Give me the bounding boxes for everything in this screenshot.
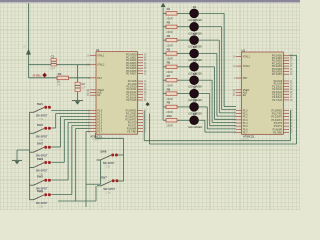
resistor R9 [163,106,166,108]
resistor R6 [163,66,166,68]
resistor R2 reset [57,76,69,80]
svg-text:D4: D4 [193,45,197,49]
wire RST horizontal [29,77,91,79]
svg-text:SW2: SW2 [37,123,44,127]
svg-text:D8: D8 [193,99,197,103]
svg-text:C2: C2 [81,82,85,86]
svg-text:1.0k: 1.0k [106,166,111,169]
wire LED D7 to U2 pin [199,93,210,95]
svg-text:D5: D5 [193,59,197,63]
svg-text:R3: R3 [167,21,171,25]
svg-text:P0.7/AD7: P0.7/AD7 [272,73,283,76]
microcontroller U1 AT89C51 [96,52,138,135]
resistor R8 [163,93,166,95]
svg-text:SW-SPDT: SW-SPDT [36,201,48,205]
svg-text:LED-GREEN: LED-GREEN [188,126,202,129]
wire LED power rail vertical [162,7,164,120]
wire LED D5 to U2 pin [199,66,215,68]
svg-text:<TEXT>: <TEXT> [92,138,102,141]
svg-text:1.0k: 1.0k [39,118,44,121]
svg-text:D3: D3 [193,32,197,36]
svg-text:R10: R10 [167,114,173,118]
svg-text:R6: R6 [167,61,171,65]
svg-text:30pF: 30pF [49,67,55,71]
svg-text:SW-SPDT: SW-SPDT [103,187,115,191]
svg-text:SW-SPDT: SW-SPDT [36,135,48,139]
svg-text:SW7: SW7 [101,175,108,179]
svg-text:RST: RST [243,77,248,80]
svg-text:P1.7: P1.7 [97,131,103,134]
svg-text:SW3: SW3 [37,142,44,146]
svg-text:R8: R8 [167,87,171,91]
wire SW3 to P1.2 [51,146,60,148]
wire P1.6 to SW7 loop [76,128,90,130]
svg-text:R4: R4 [167,34,171,38]
wire LED D3 to U2 pin [199,39,220,41]
wire rail TXD U1 P3.1 to U2 [149,114,151,145]
ground symbol left [12,159,22,161]
wire LED D8 to U2 pin [199,106,208,108]
svg-text:XTAL2: XTAL2 [97,64,105,67]
wire ground branch [17,149,30,151]
wire vertical VCC rail left [28,3,30,78]
wire LED D9 to U2 pin [199,119,205,121]
svg-text:SW5: SW5 [37,175,44,179]
svg-text:SW1: SW1 [37,102,44,106]
svg-text:SW4: SW4 [37,157,44,161]
wire SW1 to P1.0 [51,110,90,112]
wire LED D1 to U2 pin [199,12,224,14]
wire switch common ground rail [29,112,31,199]
LED D5 [190,62,199,71]
svg-text:XTAL1: XTAL1 [97,54,105,57]
svg-text:U2: U2 [241,48,245,52]
ground symbol under C2 [72,100,83,102]
LED D2 [190,22,199,31]
wire LED D6 to U2 pin [199,79,212,81]
svg-text:R9: R9 [167,101,171,105]
svg-text:SW-SPDT: SW-SPDT [36,114,48,118]
svg-text:EA: EA [243,94,247,97]
wire resistor to LED D8 [177,106,190,108]
svg-text:RST: RST [97,77,102,80]
svg-text:1.0k: 1.0k [106,192,111,195]
svg-text:C1: C1 [51,54,55,58]
wire resistor to LED D3 [177,39,190,41]
svg-text:D7: D7 [193,85,197,89]
wire SW2 to P1.1 [51,127,55,129]
svg-text:EA: EA [97,94,101,97]
LED D6 [190,76,199,85]
svg-text:P2.7/A15: P2.7/A15 [272,99,283,102]
svg-text:P0.7/AD7: P0.7/AD7 [126,73,137,76]
svg-text:XTAL1: XTAL1 [243,56,251,59]
svg-text:200R: 200R [166,123,172,127]
resistor R5 [163,52,166,54]
wire resistor to LED D4 [177,52,190,54]
resistor R4 [163,39,166,41]
wire resistor to LED D2 [177,26,190,28]
svg-text:P2.7/A15: P2.7/A15 [126,99,137,102]
wire SW6 to P1.5 [51,194,72,196]
wire P1.7 to SW7 common [86,131,90,133]
LED D1 [190,9,199,18]
power terminal VCC arrow [26,49,31,55]
LED D3 [190,36,199,45]
svg-text:R1: R1 [167,7,171,11]
power terminal arrow LED rail [161,3,166,7]
resistor R10 [163,119,166,121]
svg-text:R5: R5 [167,47,171,51]
wire resistor to LED D7 [177,93,190,95]
svg-text:R7: R7 [167,74,171,78]
LED D7 [190,89,199,98]
wire rail RXD U1 P3.0 to U2 [143,111,145,141]
wire resistor to LED D5 [177,66,190,68]
capacitor C2 [75,82,80,91]
wire SW4 to P1.3 [51,161,64,163]
svg-text:ATMEL: ATMEL [33,73,42,77]
svg-text:SW8: SW8 [100,150,107,154]
svg-text:SW-SPDT: SW-SPDT [103,161,115,165]
capacitor C1 [51,58,56,66]
junction diamond red [42,73,47,78]
wire resistor to LED D6 [177,79,190,81]
svg-text:D1: D1 [193,5,197,9]
svg-text:SW6: SW6 [37,189,44,193]
wire C2 vertical [77,65,79,101]
svg-text:R2: R2 [58,72,62,76]
microcontroller U2 AT89C51 [242,52,284,134]
svg-text:P3.7/RD: P3.7/RD [127,131,136,134]
svg-text:D2: D2 [193,18,197,22]
wire LED D4 to U2 pin [199,52,217,54]
svg-text:D9: D9 [193,112,197,116]
svg-text:1.0k: 1.0k [39,205,44,208]
resistor R7 [163,79,166,81]
wire SW8 SW7 bus [95,133,97,138]
origin marker diamond [146,102,150,106]
top window bar [0,0,300,1]
wire SW5 to P1.4 [51,179,68,181]
LED D4 [190,49,199,58]
svg-text:U1: U1 [96,48,100,52]
resistor R1 [163,12,166,14]
svg-text:P3.7/RD: P3.7/RD [273,131,282,134]
wire XTAL2 horizontal [29,64,91,66]
wire LED D2 to U2 pin [199,26,222,28]
wire resistor to LED D1 [177,12,190,14]
svg-text:D6: D6 [193,72,197,76]
wire SW8 common link [100,160,102,184]
LED D8 [190,103,199,112]
svg-text:SW-SPDT: SW-SPDT [36,169,48,173]
svg-text:XTAL2: XTAL2 [243,65,251,68]
svg-text:<TEXT>: <TEXT> [240,139,250,142]
svg-text:1uF: 1uF [81,87,86,90]
LED D9 [190,116,199,125]
resistor R3 [163,26,166,28]
wire resistor to LED D9 [177,119,190,121]
